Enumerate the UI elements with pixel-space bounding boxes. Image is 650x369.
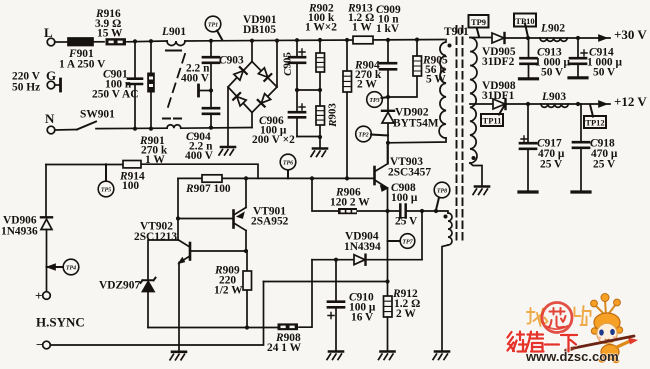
bridge diode top-right bbox=[258, 67, 271, 80]
diode VD908 bbox=[493, 99, 505, 109]
test point TP5 bbox=[98, 181, 114, 197]
node C905/C906 bbox=[295, 88, 299, 92]
wire fuse to R916 bbox=[93, 41, 104, 43]
svg-text:250 V AC: 250 V AC bbox=[92, 89, 138, 101]
resistor R903 (lower) bbox=[319, 90, 321, 137]
svg-text:TP11: TP11 bbox=[483, 116, 502, 126]
svg-text:1 W×2: 1 W×2 bbox=[305, 22, 337, 34]
test point box TP10 bbox=[514, 14, 536, 27]
+30V rail from secondary top bbox=[470, 37, 492, 39]
svg-text:120 2 W: 120 2 W bbox=[330, 197, 370, 209]
svg-text:2 W: 2 W bbox=[396, 308, 416, 320]
svg-text:R907 100: R907 100 bbox=[185, 183, 231, 195]
capacitor C903 bbox=[210, 41, 212, 91]
resistor R902 (upper) bbox=[318, 38, 322, 42]
inductor L901 top winding bbox=[167, 41, 185, 46]
secondary phase dot bbox=[472, 156, 476, 160]
svg-text:TP7: TP7 bbox=[402, 240, 413, 246]
svg-text:+30 V: +30 V bbox=[614, 27, 647, 42]
terminal L bbox=[47, 38, 55, 46]
test point TP7 bbox=[400, 234, 415, 249]
svg-text:1 kV: 1 kV bbox=[376, 23, 400, 35]
svg-text:L903: L903 bbox=[541, 91, 566, 103]
wire VT902 collector to zener bbox=[148, 240, 178, 280]
wire left branch down bbox=[45, 165, 47, 218]
resistor R912 bbox=[384, 296, 393, 317]
transistor VT901 2SA952 (PNP) bbox=[232, 211, 235, 228]
svg-text:1/2 W: 1/2 W bbox=[214, 285, 243, 297]
svg-text:15 W: 15 W bbox=[97, 28, 123, 40]
svg-text:TP3: TP3 bbox=[369, 98, 379, 104]
capacitor C904 bbox=[210, 91, 212, 128]
node R904 bottom bbox=[345, 176, 349, 180]
wire R907 row bbox=[178, 177, 374, 179]
node C903 column top bbox=[209, 39, 213, 43]
resistor R913 in series on bus bbox=[345, 38, 349, 42]
resistor R906 bbox=[338, 208, 357, 214]
T901 aux winding bbox=[448, 213, 452, 245]
watermark char pian (gold) bbox=[575, 306, 591, 325]
svg-text:50 V: 50 V bbox=[541, 67, 564, 79]
svg-text:TP6: TP6 bbox=[283, 161, 293, 167]
+30V arrow bbox=[599, 35, 606, 40]
wire zener row / R908 bbox=[148, 260, 312, 328]
watermark stamp circle bbox=[542, 303, 572, 333]
transistor VT903 2SC3457 (NPN) bbox=[373, 167, 376, 184]
test point box TP9 bbox=[469, 15, 489, 28]
svg-text:100 μ: 100 μ bbox=[391, 192, 418, 204]
svg-text:L: L bbox=[44, 25, 53, 40]
svg-text:16 V: 16 V bbox=[351, 312, 374, 324]
svg-text:200 V ×2: 200 V ×2 bbox=[252, 134, 295, 146]
svg-text:400 V: 400 V bbox=[185, 150, 214, 162]
resistor R908 bbox=[278, 323, 299, 330]
resistor R916 bbox=[106, 38, 127, 45]
zener diode VDZ907 bbox=[141, 278, 156, 283]
svg-text:400 V: 400 V bbox=[181, 73, 210, 85]
svg-text:+12 V: +12 V bbox=[614, 94, 647, 109]
ground (VT902 emitter) bbox=[170, 352, 186, 360]
svg-text:25 V: 25 V bbox=[395, 216, 418, 228]
capacitor C918 bbox=[580, 104, 582, 192]
svg-text:www.dzsc.com: www.dzsc.com bbox=[525, 349, 619, 364]
inductor L902 bbox=[540, 38, 567, 41]
test point TP2 bbox=[356, 126, 372, 142]
test point TP1 bbox=[205, 16, 221, 32]
svg-text:2 W: 2 W bbox=[357, 79, 377, 91]
ground (aux winding) bbox=[433, 352, 449, 360]
svg-text:2SC3457: 2SC3457 bbox=[388, 167, 431, 179]
wire H.SYNC return bbox=[50, 282, 263, 346]
terminal N bbox=[47, 126, 55, 134]
ground (secondary) bbox=[473, 187, 489, 195]
capacitor C913 bbox=[528, 38, 530, 78]
resistor R907 bbox=[202, 175, 222, 182]
T901 secondary winding bbox=[470, 38, 477, 164]
svg-text:100: 100 bbox=[122, 180, 139, 192]
resistor R904 bbox=[346, 40, 348, 178]
node C914 bbox=[576, 36, 580, 40]
svg-text:31DF2: 31DF2 bbox=[482, 56, 515, 68]
resistor R901 bbox=[150, 41, 152, 128]
inductor L903 bbox=[541, 104, 568, 107]
svg-text:+: + bbox=[35, 288, 42, 303]
svg-text:SW901: SW901 bbox=[80, 109, 115, 121]
transistor VT902 2SC1213 (NPN, mirrored) bbox=[189, 243, 192, 260]
switch SW901 bbox=[55, 129, 77, 132]
aux top wire bbox=[422, 211, 448, 213]
svg-text:C905: C905 bbox=[282, 52, 294, 76]
test point TP8 bbox=[434, 182, 450, 198]
svg-text:L902: L902 bbox=[540, 23, 565, 35]
wire lower row bbox=[264, 281, 388, 283]
watermark weiku red characters bbox=[508, 332, 578, 352]
node C913 bbox=[526, 36, 530, 40]
test point TP3 bbox=[367, 92, 383, 108]
svg-text:25 V: 25 V bbox=[540, 159, 563, 171]
terminal - (H.SYNC) bbox=[43, 341, 51, 349]
svg-text:TP12: TP12 bbox=[585, 118, 604, 128]
diode VD904 bbox=[354, 255, 365, 265]
terminal G + chassis tab bbox=[47, 81, 55, 89]
+12V rail from secondary tap bbox=[470, 103, 493, 105]
wire node down to VT903 collector bbox=[387, 143, 389, 164]
svg-text:DB105: DB105 bbox=[243, 24, 276, 36]
resistor R914 bbox=[123, 161, 141, 168]
bridge diode bottom-left bbox=[233, 93, 246, 106]
node VT903 emitter bbox=[385, 209, 389, 213]
resistor R909 bbox=[246, 251, 248, 328]
bridge diode top-left bbox=[233, 67, 246, 80]
terminal + (H.SYNC) bbox=[43, 292, 51, 300]
svg-text:TP8: TP8 bbox=[437, 189, 447, 195]
node C918 bbox=[576, 102, 580, 106]
svg-text:TP5: TP5 bbox=[101, 188, 111, 194]
svg-text:C903: C903 bbox=[219, 55, 244, 67]
svg-text:2SC1213: 2SC1213 bbox=[134, 231, 177, 243]
capacitor C905 bbox=[295, 38, 299, 42]
node C917 bbox=[526, 102, 530, 106]
node VT901 base bbox=[176, 216, 180, 220]
node snubber bbox=[386, 95, 390, 99]
svg-text:1 W: 1 W bbox=[352, 22, 372, 34]
test point TP4 bbox=[63, 259, 79, 275]
wire R906 row bbox=[312, 178, 388, 211]
diode VD902 bbox=[387, 97, 389, 143]
resistor R905 bbox=[415, 38, 419, 42]
svg-text:G: G bbox=[46, 68, 56, 83]
svg-text:1N4394: 1N4394 bbox=[344, 241, 381, 253]
svg-text:VDZ907: VDZ907 bbox=[99, 280, 140, 292]
wire VT903 emitter down bbox=[387, 211, 389, 296]
test point TP6 bbox=[280, 154, 296, 170]
svg-text:N: N bbox=[45, 111, 55, 126]
diode VD905 bbox=[492, 33, 504, 43]
capacitor C901 bbox=[134, 42, 136, 129]
wire VD904 row bbox=[312, 259, 422, 261]
capacitor C906 bbox=[296, 90, 298, 137]
capacitor C908 bbox=[388, 211, 423, 260]
watermark char zhao (gold) bbox=[527, 308, 548, 326]
N wire bbox=[96, 128, 252, 129]
L901 core bar and dashed core link bbox=[166, 50, 181, 52]
fuse F901 bbox=[68, 38, 93, 46]
svg-text:25 V: 25 V bbox=[593, 159, 616, 171]
node switch/primary bbox=[386, 141, 390, 145]
svg-text:50 Hz: 50 Hz bbox=[12, 82, 40, 94]
T901 primary winding bbox=[439, 40, 446, 138]
+12V arrow bbox=[599, 101, 606, 106]
svg-text:2SA952: 2SA952 bbox=[251, 216, 289, 228]
svg-text:31DF1: 31DF1 bbox=[482, 90, 515, 102]
svg-text:−: − bbox=[36, 337, 43, 352]
watermark char xin (red) bbox=[549, 308, 566, 328]
ground (C910) bbox=[327, 352, 343, 360]
wire primary bottom to switch node bbox=[388, 138, 446, 143]
aux phase dot bbox=[444, 215, 448, 219]
svg-text:L901: L901 bbox=[161, 26, 186, 38]
svg-text:24 1 W: 24 1 W bbox=[267, 342, 302, 354]
capacitor C914 bbox=[577, 38, 579, 77]
diode VD906 bbox=[41, 216, 52, 218]
test point box TP12 bbox=[584, 116, 606, 128]
svg-text:TP9: TP9 bbox=[471, 17, 486, 27]
test point box TP11 bbox=[481, 114, 503, 126]
svg-text:1N4936: 1N4936 bbox=[1, 226, 38, 238]
L901 bottom winding on N line bbox=[167, 125, 181, 128]
ground (C906/R903) bbox=[311, 149, 327, 157]
capacitor C909 bbox=[386, 38, 390, 42]
capacitor C910 bbox=[335, 260, 337, 351]
svg-text:BYT54M: BYT54M bbox=[393, 118, 439, 130]
svg-text:TP4: TP4 bbox=[66, 266, 76, 272]
wire L to fuse bbox=[55, 41, 68, 43]
aux bottom to ground bbox=[442, 245, 448, 351]
bridge diode bottom-right bbox=[258, 93, 271, 106]
svg-text:TP2: TP2 bbox=[358, 133, 368, 139]
svg-text:1 A 250 V: 1 A 250 V bbox=[59, 59, 106, 71]
capacitor C917 bbox=[527, 104, 529, 192]
ground (bridge negative) bbox=[219, 147, 235, 155]
primary phase dot bbox=[448, 44, 452, 48]
T901 core bbox=[456, 26, 458, 243]
ground (R912) bbox=[379, 352, 395, 360]
svg-text:H.SYNC: H.SYNC bbox=[36, 315, 85, 330]
mid tab stub bbox=[209, 88, 213, 92]
svg-text:50 V: 50 V bbox=[593, 67, 616, 79]
watermark mascot dzsc bbox=[566, 294, 638, 364]
svg-text:TP1: TP1 bbox=[208, 23, 218, 29]
wire R914 row bbox=[46, 164, 258, 178]
svg-text:R903: R903 bbox=[327, 103, 339, 128]
secondary bottom to ground bbox=[470, 163, 482, 186]
wire VT901 emitter row to VT902 base bbox=[191, 250, 246, 252]
top bus wire bbox=[127, 40, 444, 42]
